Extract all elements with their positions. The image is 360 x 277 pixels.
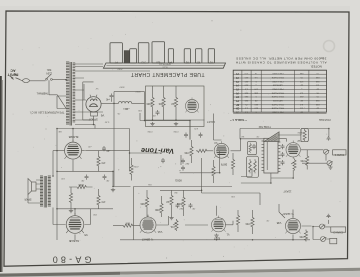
coupling cap C11 — [103, 175, 110, 182]
lower 6L6 connections — [53, 208, 91, 241]
cathode resistor R5 — [231, 153, 234, 175]
svg-text:12AX7: 12AX7 — [283, 190, 292, 194]
grid resistor R24 — [245, 210, 254, 234]
filter cap C30 — [105, 94, 113, 102]
rectifier socket base — [91, 112, 98, 116]
svg-text:6L6: 6L6 — [156, 60, 161, 63]
coupling caps C8 — [181, 159, 190, 165]
channel 1 label plate — [333, 150, 346, 157]
volume pot channel 1 — [291, 159, 296, 171]
cap C15 — [189, 203, 196, 209]
svg-text:V4A: V4A — [157, 230, 162, 233]
svg-text:270K: 270K — [173, 130, 179, 132]
output tube V5a 6L6GB — [65, 135, 82, 159]
svg-text:470K: 470K — [299, 235, 305, 237]
speaker SPKR — [24, 179, 40, 202]
jack 2 ground — [326, 214, 330, 218]
svg-text:1M: 1M — [241, 135, 244, 137]
svg-text:TPS ALTERNATE 115V. 60 CY.: TPS ALTERNATE 115V. 60 CY. — [29, 111, 64, 114]
svg-text:THERMAL: THERMAL — [36, 92, 49, 95]
svg-text:6L6GB: 6L6GB — [69, 135, 79, 139]
B+ takeoff wiring — [101, 92, 190, 187]
svg-text:1M: 1M — [171, 102, 174, 104]
svg-text:CH: CH — [236, 107, 240, 109]
svg-text:PIN 6 GRID: PIN 6 GRID — [272, 72, 283, 74]
thermal breaker label — [36, 80, 66, 108]
svg-text:220K: 220K — [140, 202, 146, 204]
channel 2 label plate — [331, 227, 346, 234]
svg-text:CATHODE: CATHODE — [272, 84, 283, 87]
svg-text:PIN 3 PLATE: PIN 3 PLATE — [271, 76, 284, 79]
misc value labels — [58, 68, 302, 222]
svg-text:PIN 7 GRID: PIN 7 GRID — [272, 110, 283, 112]
chassis outline (tube placement chart) — [103, 63, 225, 68]
svg-text:CATHODE: CATHODE — [272, 99, 283, 102]
screen resistor R16 — [97, 151, 106, 172]
svg-text:SP: SP — [236, 103, 240, 105]
coupling network box — [301, 129, 308, 142]
svg-text:6L6GB: 6L6GB — [69, 239, 79, 243]
svg-text:TYP.: TYP. — [319, 56, 324, 59]
svg-text:800Ω: 800Ω — [175, 178, 182, 182]
main interstage bus — [113, 151, 260, 193]
electrolytic C12 — [102, 146, 110, 151]
svg-text:NOTED.: NOTED. — [310, 64, 322, 68]
resistor R15 — [176, 190, 185, 216]
voltage table — [233, 70, 326, 113]
plate resistor R13 — [154, 196, 163, 217]
svg-text:VOL: VOL — [169, 225, 174, 227]
V4B plate wiring — [279, 204, 312, 240]
chart tube box 7 — [184, 49, 190, 64]
svg-text:CHAN 2: CHAN 2 — [333, 230, 343, 234]
svg-text:AC: AC — [10, 68, 16, 72]
channel 1 wiring — [301, 150, 327, 163]
tone cap bank box 2 — [247, 156, 259, 177]
svg-text:INPUT: INPUT — [7, 73, 19, 77]
PI resistor R21 — [158, 90, 165, 120]
svg-text:500K: 500K — [297, 131, 303, 133]
V3 output wiring — [231, 129, 302, 151]
svg-text:PIN 1 PLATE: PIN 1 PLATE — [271, 107, 284, 110]
svg-text:1M: 1M — [166, 200, 169, 202]
cathode resistor R26 — [299, 230, 308, 242]
svg-text:BR: BR — [58, 130, 61, 132]
PI resistor R20 — [146, 90, 154, 120]
power transformer T1 — [66, 62, 75, 126]
B+ rail and screen wiring — [57, 129, 130, 241]
output transformer T2 — [40, 176, 51, 208]
lower interstage wiring — [148, 206, 233, 225]
svg-text:56K: 56K — [158, 102, 163, 104]
volume pot channel 2 — [169, 219, 178, 231]
svg-text:V6: V6 — [100, 114, 104, 118]
chart tube box 9 — [208, 49, 214, 64]
svg-text:100K: 100K — [78, 183, 84, 185]
chart tube box 1 — [110, 43, 122, 64]
svg-text:5Y3: 5Y3 — [141, 60, 146, 63]
svg-text:100K: 100K — [154, 208, 160, 210]
chart tube box 8 — [196, 49, 202, 64]
tube V4A half 12AX7 — [140, 215, 162, 242]
chart tube box 5 — [152, 42, 165, 64]
preamp tube V3 5879 — [214, 141, 229, 166]
feedback resistor R18 — [69, 183, 93, 189]
coupling cap C6 — [199, 133, 203, 138]
AC line input plug — [7, 68, 21, 79]
PI internal wiring — [146, 86, 205, 120]
svg-text:68K: 68K — [125, 222, 130, 224]
input jack J2 — [320, 224, 327, 242]
svg-text:6.3V: 6.3V — [104, 121, 109, 123]
wafer contacts — [262, 141, 281, 172]
jack 2 wiring — [313, 220, 331, 240]
svg-text:PIN 1 PLATE: PIN 1 PLATE — [271, 95, 284, 98]
svg-text:470K: 470K — [133, 165, 139, 167]
fuse F1 — [21, 79, 46, 83]
cap C14 — [176, 203, 184, 209]
jack 2 box — [330, 238, 337, 243]
line voltage note — [29, 111, 64, 114]
tube V4B half 12AX7 — [276, 212, 300, 234]
svg-text:5879: 5879 — [220, 163, 227, 167]
chart tube box 3 — [130, 49, 137, 63]
svg-text:½ 12AX7: ½ 12AX7 — [282, 212, 294, 216]
upper 6L6 connections — [53, 129, 130, 177]
svg-text:V4B: V4B — [276, 221, 281, 224]
coupling cap C10 — [81, 175, 89, 182]
svg-text:470K: 470K — [245, 222, 251, 224]
grid resistor R7 — [130, 158, 133, 181]
svg-text:325V: 325V — [135, 90, 141, 92]
output tube V5b 6L6GB — [66, 213, 88, 243]
lower stage box — [134, 187, 233, 240]
transformer secondary leads — [57, 67, 103, 129]
V3 plate resistor R8 — [184, 140, 193, 163]
screen resistor R17 — [97, 189, 106, 209]
svg-text:10K: 10K — [138, 109, 142, 111]
bottom bus wire — [120, 239, 310, 241]
svg-text:PT: PT — [114, 60, 118, 63]
extra drop wires — [181, 155, 260, 205]
svg-text:TUBE PLACEMENT CHART: TUBE PLACEMENT CHART — [130, 71, 205, 77]
rectifier tube V6 5Y3GT — [86, 95, 104, 122]
jack ground — [326, 137, 332, 169]
phase inverter stage box — [146, 86, 205, 127]
coupling cap C5 — [184, 133, 188, 138]
preamp tube V2 6EU7 — [286, 139, 301, 157]
V3 grid resistor R9 — [196, 149, 213, 152]
OT to speaker wires — [28, 180, 40, 203]
filter choke L1 — [119, 102, 132, 109]
wafer rotor arrow — [264, 132, 279, 142]
svg-text:470K: 470K — [300, 159, 306, 161]
voltage chart note text — [235, 56, 326, 69]
svg-text:Vari-Tone: Vari-Tone — [141, 146, 174, 156]
svg-text:PIN 3 PLATE: PIN 3 PLATE — [271, 91, 284, 94]
B+ distribution right — [140, 113, 329, 140]
phase inverter tube V4 half — [185, 97, 214, 124]
svg-text:* TABLE 1 *: * TABLE 1 * — [230, 118, 247, 122]
svg-text:2M: 2M — [174, 191, 177, 193]
svg-text:PIN 6 GRID: PIN 6 GRID — [272, 88, 283, 90]
right contact caps — [281, 144, 285, 165]
chart tube box 4 — [138, 43, 149, 64]
PI resistor R22 — [171, 90, 177, 120]
bias resistor R19 — [69, 187, 72, 209]
svg-text:47K: 47K — [194, 127, 198, 129]
HV loop wiring — [83, 82, 94, 125]
tube V1 5879 — [211, 216, 229, 241]
tone network drop wires — [241, 157, 293, 183]
svg-text:V5: V5 — [84, 233, 88, 237]
grid resistor R2 — [300, 150, 309, 170]
svg-text:470K: 470K — [184, 151, 190, 153]
svg-text:GA-80: GA-80 — [49, 255, 91, 265]
input resistor R11 — [113, 222, 140, 228]
scan speckles (texture) — [13, 17, 341, 259]
chart tube box 6 — [168, 49, 173, 64]
svg-text:PIN 6 GRID: PIN 6 GRID — [272, 80, 283, 82]
svg-text:20,000 OHM PER VOLT METER. ALL: 20,000 OHM PER VOLT METER. ALL DC UNLESS — [236, 57, 327, 61]
svg-text:½ 12AX7: ½ 12AX7 — [141, 237, 153, 241]
svg-text:700V: 700V — [117, 68, 123, 70]
svg-text:220K: 220K — [146, 102, 152, 104]
grid resistor R25 — [236, 210, 239, 232]
coupling cap C7 — [161, 158, 165, 163]
svg-text:PIN 1 PLATE: PIN 1 PLATE — [271, 103, 284, 106]
ground symbols row — [69, 122, 219, 237]
svg-text:10K: 10K — [231, 195, 235, 197]
PI coupling cap C20 — [152, 110, 159, 116]
svg-text:VOLTAGE: VOLTAGE — [319, 118, 331, 122]
tone cap bank box 1 — [248, 142, 257, 155]
on-off switch SW — [45, 68, 66, 80]
svg-text:ALL VOLTAGES MEASURED TO CHASS: ALL VOLTAGES MEASURED TO CHASSIS WITH — [235, 60, 326, 64]
plate resistor R12 — [140, 190, 149, 217]
plate resistor R10 — [212, 160, 215, 183]
input jack J1 — [324, 149, 333, 166]
svg-text:270K: 270K — [147, 130, 153, 132]
Vari-Tone switch wafer — [264, 138, 278, 173]
resistor R14 — [166, 190, 173, 216]
svg-text:CHAN 1: CHAN 1 — [334, 153, 344, 157]
svg-text:350V: 350V — [119, 86, 125, 88]
table to preamp wire — [214, 114, 222, 141]
chart tube box 2 — [124, 51, 129, 63]
